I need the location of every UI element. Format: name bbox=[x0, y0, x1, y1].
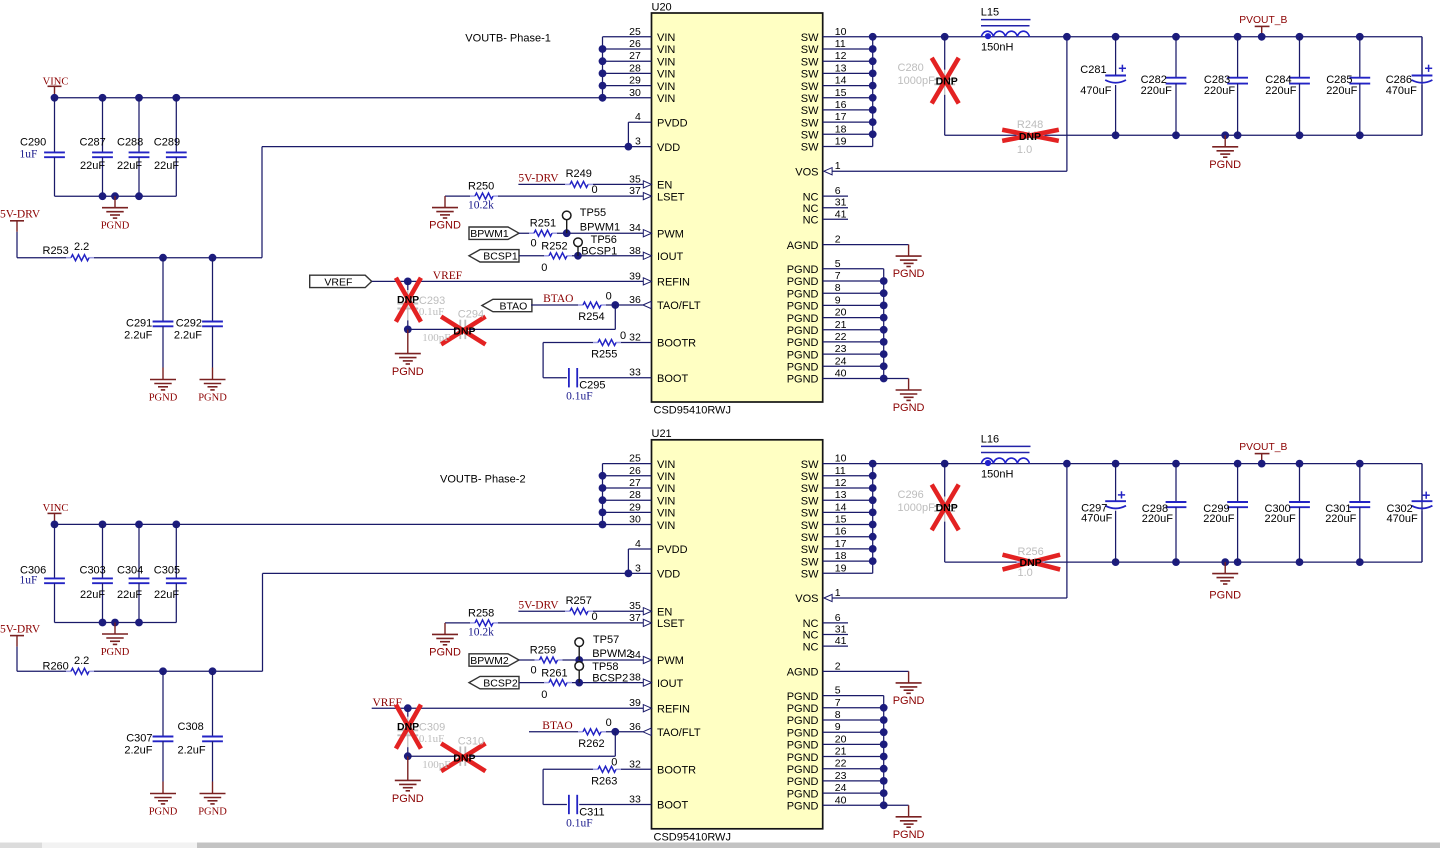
svg-text:PGND: PGND bbox=[787, 374, 819, 386]
svg-text:IOUT: IOUT bbox=[657, 251, 684, 263]
svg-text:BCSP1: BCSP1 bbox=[483, 251, 518, 263]
svg-text:7: 7 bbox=[835, 697, 841, 709]
svg-text:29: 29 bbox=[629, 75, 641, 87]
svg-text:0: 0 bbox=[606, 290, 612, 302]
svg-text:DNP: DNP bbox=[453, 326, 475, 338]
svg-text:VIN: VIN bbox=[657, 93, 675, 105]
svg-text:TP58: TP58 bbox=[592, 661, 618, 673]
svg-text:0: 0 bbox=[592, 611, 598, 623]
svg-text:PGND: PGND bbox=[392, 366, 424, 378]
svg-text:470uF: 470uF bbox=[1387, 513, 1418, 525]
svg-text:VIN: VIN bbox=[657, 81, 675, 93]
svg-text:22uF: 22uF bbox=[154, 160, 179, 172]
svg-text:C283: C283 bbox=[1204, 74, 1230, 86]
svg-text:22: 22 bbox=[835, 331, 847, 343]
svg-text:NC: NC bbox=[803, 191, 819, 203]
svg-text:4: 4 bbox=[635, 538, 641, 550]
svg-text:2.2: 2.2 bbox=[74, 655, 89, 667]
svg-text:35: 35 bbox=[629, 600, 641, 612]
svg-text:SW: SW bbox=[801, 32, 819, 44]
svg-text:29: 29 bbox=[629, 501, 641, 513]
svg-text:31: 31 bbox=[835, 624, 847, 636]
svg-text:DNP: DNP bbox=[936, 502, 958, 514]
svg-text:C303: C303 bbox=[80, 564, 106, 576]
svg-text:22uF: 22uF bbox=[80, 589, 105, 601]
svg-text:TP55: TP55 bbox=[580, 207, 606, 219]
svg-text:28: 28 bbox=[629, 489, 641, 501]
svg-text:PGND: PGND bbox=[787, 337, 819, 349]
svg-text:22uF: 22uF bbox=[154, 589, 179, 601]
svg-text:PVDD: PVDD bbox=[657, 117, 688, 129]
svg-text:C293: C293 bbox=[419, 295, 445, 307]
svg-text:28: 28 bbox=[629, 62, 641, 74]
svg-text:30: 30 bbox=[629, 87, 641, 99]
svg-text:PVDD: PVDD bbox=[657, 544, 688, 556]
svg-text:22uF: 22uF bbox=[117, 589, 142, 601]
svg-text:R263: R263 bbox=[591, 775, 617, 787]
svg-text:0: 0 bbox=[531, 238, 537, 250]
svg-text:PGND: PGND bbox=[429, 220, 461, 232]
svg-text:SW: SW bbox=[801, 105, 819, 117]
svg-text:C286: C286 bbox=[1386, 74, 1412, 86]
svg-text:C292: C292 bbox=[176, 318, 202, 330]
svg-text:PGND: PGND bbox=[787, 301, 819, 313]
svg-text:10.2k: 10.2k bbox=[468, 626, 494, 638]
svg-text:6: 6 bbox=[835, 185, 841, 197]
svg-text:38: 38 bbox=[629, 245, 641, 257]
svg-text:C280: C280 bbox=[898, 62, 924, 74]
svg-text:AGND: AGND bbox=[787, 667, 819, 679]
svg-text:SW: SW bbox=[801, 544, 819, 556]
svg-text:R253: R253 bbox=[43, 245, 69, 257]
svg-text:SW: SW bbox=[801, 130, 819, 142]
svg-text:1.0: 1.0 bbox=[1018, 567, 1033, 579]
svg-text:C281: C281 bbox=[1080, 64, 1106, 76]
svg-text:0: 0 bbox=[620, 330, 626, 342]
svg-text:BTAO: BTAO bbox=[499, 300, 527, 312]
svg-text:18: 18 bbox=[835, 123, 847, 135]
svg-text:BOOT: BOOT bbox=[657, 800, 688, 812]
svg-text:220uF: 220uF bbox=[1265, 513, 1296, 525]
svg-text:BOOT: BOOT bbox=[657, 373, 688, 385]
svg-text:C308: C308 bbox=[178, 721, 204, 733]
svg-text:C291: C291 bbox=[126, 318, 152, 330]
svg-text:5V-DRV: 5V-DRV bbox=[0, 209, 41, 221]
svg-text:PGND: PGND bbox=[787, 740, 819, 752]
svg-text:1: 1 bbox=[835, 587, 841, 599]
svg-text:0: 0 bbox=[541, 262, 547, 274]
svg-text:PGND: PGND bbox=[787, 715, 819, 727]
svg-text:4: 4 bbox=[635, 111, 641, 123]
svg-text:DNP: DNP bbox=[936, 75, 958, 87]
svg-text:C296: C296 bbox=[898, 489, 924, 501]
svg-text:R255: R255 bbox=[591, 349, 617, 361]
svg-text:C294: C294 bbox=[458, 309, 484, 321]
svg-text:PGND: PGND bbox=[787, 691, 819, 703]
svg-text:NC: NC bbox=[803, 215, 819, 227]
svg-text:7: 7 bbox=[835, 270, 841, 282]
svg-text:R256: R256 bbox=[1018, 546, 1044, 558]
svg-text:2.2uF: 2.2uF bbox=[174, 330, 202, 342]
svg-text:220uF: 220uF bbox=[1203, 513, 1234, 525]
svg-text:SW: SW bbox=[801, 520, 819, 532]
svg-text:39: 39 bbox=[629, 270, 641, 282]
svg-text:PGND: PGND bbox=[787, 788, 819, 800]
svg-text:470uF: 470uF bbox=[1080, 85, 1111, 97]
svg-text:BPWM2: BPWM2 bbox=[470, 655, 509, 667]
svg-text:26: 26 bbox=[629, 465, 641, 477]
svg-text:10: 10 bbox=[835, 26, 847, 38]
svg-text:C309: C309 bbox=[419, 722, 445, 734]
svg-text:SW: SW bbox=[801, 495, 819, 507]
svg-text:PVOUT_B: PVOUT_B bbox=[1239, 442, 1287, 453]
svg-text:NC: NC bbox=[803, 203, 819, 215]
svg-text:C305: C305 bbox=[154, 564, 180, 576]
svg-text:NC: NC bbox=[803, 630, 819, 642]
svg-text:100pF: 100pF bbox=[422, 332, 450, 344]
svg-text:1uF: 1uF bbox=[20, 574, 38, 586]
svg-text:C285: C285 bbox=[1326, 74, 1352, 86]
svg-text:DNP: DNP bbox=[397, 294, 419, 306]
svg-text:PGND: PGND bbox=[893, 695, 925, 707]
svg-text:PGND: PGND bbox=[787, 801, 819, 813]
svg-text:9: 9 bbox=[835, 721, 841, 733]
svg-text:3: 3 bbox=[635, 562, 641, 574]
svg-text:BTAO: BTAO bbox=[542, 720, 572, 732]
svg-text:150nH: 150nH bbox=[981, 42, 1013, 54]
svg-text:C289: C289 bbox=[154, 137, 180, 149]
svg-text:PGND: PGND bbox=[429, 646, 461, 658]
svg-text:5V-DRV: 5V-DRV bbox=[0, 624, 41, 636]
svg-text:1: 1 bbox=[835, 160, 841, 172]
svg-text:PGND: PGND bbox=[787, 288, 819, 300]
svg-text:PGND: PGND bbox=[149, 807, 178, 818]
svg-text:32: 32 bbox=[629, 332, 641, 344]
svg-text:R259: R259 bbox=[530, 644, 556, 656]
svg-text:VIN: VIN bbox=[657, 56, 675, 68]
svg-text:11: 11 bbox=[835, 465, 846, 477]
svg-text:PGND: PGND bbox=[1209, 159, 1241, 171]
svg-text:0.1uF: 0.1uF bbox=[419, 306, 444, 318]
svg-text:VREF: VREF bbox=[324, 276, 352, 288]
svg-text:31: 31 bbox=[835, 197, 847, 209]
svg-text:C288: C288 bbox=[117, 137, 143, 149]
svg-text:SW: SW bbox=[801, 117, 819, 129]
svg-text:PVOUT_B: PVOUT_B bbox=[1239, 15, 1287, 26]
svg-text:27: 27 bbox=[629, 50, 641, 62]
svg-text:C287: C287 bbox=[80, 137, 106, 149]
svg-text:VIN: VIN bbox=[657, 459, 675, 471]
svg-text:PGND: PGND bbox=[787, 362, 819, 374]
svg-text:IOUT: IOUT bbox=[657, 678, 684, 690]
svg-text:1000pF: 1000pF bbox=[898, 75, 936, 87]
svg-text:PGND: PGND bbox=[787, 349, 819, 361]
svg-text:BCSP1: BCSP1 bbox=[581, 246, 617, 258]
svg-text:VOS: VOS bbox=[795, 593, 818, 605]
svg-text:R248: R248 bbox=[1017, 119, 1043, 131]
svg-text:CSD95410RWJ: CSD95410RWJ bbox=[654, 831, 731, 843]
svg-text:8: 8 bbox=[835, 709, 841, 721]
svg-text:PGND: PGND bbox=[893, 829, 925, 841]
svg-text:SW: SW bbox=[801, 56, 819, 68]
svg-text:34: 34 bbox=[629, 222, 641, 234]
svg-text:1000pF: 1000pF bbox=[898, 502, 936, 514]
svg-text:SW: SW bbox=[801, 459, 819, 471]
svg-text:1.0: 1.0 bbox=[1017, 144, 1032, 156]
svg-text:0: 0 bbox=[592, 184, 598, 196]
svg-text:5: 5 bbox=[835, 258, 841, 270]
svg-text:2: 2 bbox=[835, 660, 841, 672]
svg-text:VREF: VREF bbox=[433, 270, 462, 282]
svg-text:PGND: PGND bbox=[1209, 590, 1241, 602]
svg-text:BCSP2: BCSP2 bbox=[483, 678, 518, 690]
svg-text:VIN: VIN bbox=[657, 69, 675, 81]
svg-text:C304: C304 bbox=[117, 564, 143, 576]
svg-text:VIN: VIN bbox=[657, 32, 675, 44]
svg-text:9: 9 bbox=[835, 294, 841, 306]
svg-text:41: 41 bbox=[835, 208, 847, 220]
svg-text:2.2uF: 2.2uF bbox=[124, 330, 152, 342]
svg-text:TP56: TP56 bbox=[591, 234, 617, 246]
svg-text:PGND: PGND bbox=[787, 752, 819, 764]
svg-text:PGND: PGND bbox=[787, 264, 819, 276]
svg-text:SW: SW bbox=[801, 44, 819, 56]
svg-text:22: 22 bbox=[835, 758, 847, 770]
svg-text:VOS: VOS bbox=[795, 166, 818, 178]
svg-text:EN: EN bbox=[657, 606, 672, 618]
svg-text:PWM: PWM bbox=[657, 228, 684, 240]
svg-text:R251: R251 bbox=[530, 218, 556, 230]
svg-text:VIN: VIN bbox=[657, 471, 675, 483]
svg-text:PGND: PGND bbox=[787, 703, 819, 715]
svg-text:19: 19 bbox=[835, 136, 847, 148]
svg-text:LSET: LSET bbox=[657, 191, 685, 203]
svg-text:12: 12 bbox=[835, 50, 847, 62]
svg-text:40: 40 bbox=[835, 794, 847, 806]
svg-text:0.1uF: 0.1uF bbox=[419, 733, 444, 745]
svg-text:SW: SW bbox=[801, 508, 819, 520]
svg-text:5: 5 bbox=[835, 685, 841, 697]
svg-text:220uF: 220uF bbox=[1265, 85, 1296, 97]
svg-text:12: 12 bbox=[835, 477, 847, 489]
svg-text:16: 16 bbox=[835, 99, 847, 111]
svg-text:22uF: 22uF bbox=[80, 160, 105, 172]
svg-text:U20: U20 bbox=[652, 1, 672, 13]
svg-text:38: 38 bbox=[629, 672, 641, 684]
svg-text:R261: R261 bbox=[541, 667, 567, 679]
svg-text:11: 11 bbox=[835, 38, 846, 50]
svg-text:L15: L15 bbox=[981, 7, 999, 19]
svg-text:20: 20 bbox=[835, 307, 847, 319]
svg-text:VOUTB- Phase-2: VOUTB- Phase-2 bbox=[440, 474, 526, 486]
svg-text:17: 17 bbox=[835, 538, 847, 550]
svg-text:36: 36 bbox=[629, 721, 641, 733]
svg-text:LSET: LSET bbox=[657, 618, 685, 630]
svg-text:VIN: VIN bbox=[657, 508, 675, 520]
svg-text:33: 33 bbox=[629, 367, 641, 379]
svg-text:1uF: 1uF bbox=[20, 149, 38, 161]
svg-text:C282: C282 bbox=[1141, 74, 1167, 86]
svg-text:VDD: VDD bbox=[657, 569, 680, 581]
svg-text:BCSP2: BCSP2 bbox=[592, 672, 628, 684]
svg-text:10: 10 bbox=[835, 453, 847, 465]
svg-text:AGND: AGND bbox=[787, 240, 819, 252]
svg-text:TP57: TP57 bbox=[593, 634, 619, 646]
svg-text:BTAO: BTAO bbox=[543, 293, 573, 305]
svg-text:2.2uF: 2.2uF bbox=[178, 745, 206, 757]
svg-text:PWM: PWM bbox=[657, 655, 684, 667]
svg-text:100pF: 100pF bbox=[422, 759, 450, 771]
svg-text:PGND: PGND bbox=[101, 647, 130, 658]
svg-text:SW: SW bbox=[801, 81, 819, 93]
svg-text:10.2k: 10.2k bbox=[468, 200, 494, 212]
svg-text:15: 15 bbox=[835, 514, 847, 526]
svg-text:SW: SW bbox=[801, 69, 819, 81]
svg-text:23: 23 bbox=[835, 343, 847, 355]
svg-text:470uF: 470uF bbox=[1386, 85, 1417, 97]
svg-text:SW: SW bbox=[801, 483, 819, 495]
svg-text:0: 0 bbox=[541, 689, 547, 701]
svg-text:37: 37 bbox=[629, 185, 641, 197]
svg-text:220uF: 220uF bbox=[1326, 85, 1357, 97]
svg-text:SW: SW bbox=[801, 142, 819, 154]
svg-text:PGND: PGND bbox=[198, 393, 227, 404]
svg-text:25: 25 bbox=[629, 26, 641, 38]
svg-text:C284: C284 bbox=[1265, 74, 1291, 86]
svg-text:PGND: PGND bbox=[787, 764, 819, 776]
svg-text:150nH: 150nH bbox=[981, 468, 1013, 480]
svg-text:BOOTR: BOOTR bbox=[657, 765, 696, 777]
svg-text:R250: R250 bbox=[468, 181, 494, 193]
svg-text:5V-DRV: 5V-DRV bbox=[518, 173, 559, 185]
svg-text:30: 30 bbox=[629, 514, 641, 526]
svg-text:3: 3 bbox=[635, 136, 641, 148]
svg-text:37: 37 bbox=[629, 612, 641, 624]
svg-text:15: 15 bbox=[835, 87, 847, 99]
svg-text:0.1uF: 0.1uF bbox=[566, 818, 593, 830]
svg-text:PGND: PGND bbox=[787, 727, 819, 739]
svg-text:TAO/FLT: TAO/FLT bbox=[657, 300, 701, 312]
svg-text:TAO/FLT: TAO/FLT bbox=[657, 727, 701, 739]
svg-text:33: 33 bbox=[629, 794, 641, 806]
svg-text:R249: R249 bbox=[566, 168, 592, 180]
svg-text:2: 2 bbox=[835, 234, 841, 246]
svg-text:220uF: 220uF bbox=[1204, 85, 1235, 97]
svg-text:SW: SW bbox=[801, 93, 819, 105]
svg-text:VIN: VIN bbox=[657, 495, 675, 507]
svg-text:R254: R254 bbox=[578, 311, 604, 323]
svg-text:VIN: VIN bbox=[657, 44, 675, 56]
svg-text:19: 19 bbox=[835, 562, 847, 574]
svg-text:8: 8 bbox=[835, 282, 841, 294]
svg-text:6: 6 bbox=[835, 612, 841, 624]
svg-text:220uF: 220uF bbox=[1141, 85, 1172, 97]
svg-text:PGND: PGND bbox=[787, 776, 819, 788]
svg-text:24: 24 bbox=[835, 355, 847, 367]
svg-text:VDD: VDD bbox=[657, 142, 680, 154]
svg-text:0: 0 bbox=[606, 717, 612, 729]
svg-text:PGND: PGND bbox=[893, 268, 925, 280]
svg-text:PGND: PGND bbox=[893, 402, 925, 414]
svg-text:17: 17 bbox=[835, 111, 847, 123]
svg-text:35: 35 bbox=[629, 173, 641, 185]
svg-text:2.2uF: 2.2uF bbox=[124, 745, 152, 757]
svg-text:26: 26 bbox=[629, 38, 641, 50]
svg-text:40: 40 bbox=[835, 368, 847, 380]
svg-text:PGND: PGND bbox=[101, 221, 130, 232]
svg-text:41: 41 bbox=[835, 635, 847, 647]
svg-text:DNP: DNP bbox=[453, 752, 475, 764]
svg-text:PGND: PGND bbox=[787, 313, 819, 325]
svg-text:SW: SW bbox=[801, 569, 819, 581]
svg-text:PGND: PGND bbox=[787, 325, 819, 337]
svg-text:13: 13 bbox=[835, 62, 847, 74]
svg-text:23: 23 bbox=[835, 770, 847, 782]
svg-text:21: 21 bbox=[835, 319, 847, 331]
svg-text:22uF: 22uF bbox=[117, 160, 142, 172]
svg-text:R258: R258 bbox=[468, 608, 494, 620]
svg-text:0: 0 bbox=[611, 757, 617, 769]
svg-text:18: 18 bbox=[835, 550, 847, 562]
svg-text:470uF: 470uF bbox=[1081, 513, 1112, 525]
svg-text:0.1uF: 0.1uF bbox=[566, 391, 593, 403]
svg-text:BPWM1: BPWM1 bbox=[470, 228, 509, 240]
svg-text:C290: C290 bbox=[20, 137, 46, 149]
svg-text:DNP: DNP bbox=[1019, 131, 1041, 143]
svg-text:VIN: VIN bbox=[657, 520, 675, 532]
svg-text:27: 27 bbox=[629, 477, 641, 489]
svg-text:U21: U21 bbox=[652, 428, 672, 440]
svg-text:BOOTR: BOOTR bbox=[657, 338, 696, 350]
svg-text:PGND: PGND bbox=[392, 793, 424, 805]
svg-text:PGND: PGND bbox=[149, 393, 178, 404]
svg-text:VOUTB- Phase-1: VOUTB- Phase-1 bbox=[465, 33, 551, 45]
svg-text:220uF: 220uF bbox=[1142, 513, 1173, 525]
svg-text:16: 16 bbox=[835, 526, 847, 538]
svg-text:13: 13 bbox=[835, 489, 847, 501]
svg-text:5V-DRV: 5V-DRV bbox=[518, 599, 559, 611]
svg-text:C307: C307 bbox=[126, 733, 152, 745]
svg-text:32: 32 bbox=[629, 758, 641, 770]
svg-text:36: 36 bbox=[629, 294, 641, 306]
svg-text:EN: EN bbox=[657, 180, 672, 192]
svg-text:REFIN: REFIN bbox=[657, 277, 690, 289]
svg-text:20: 20 bbox=[835, 733, 847, 745]
svg-text:21: 21 bbox=[835, 746, 847, 758]
svg-text:CSD95410RWJ: CSD95410RWJ bbox=[654, 405, 731, 417]
svg-text:14: 14 bbox=[835, 501, 847, 513]
svg-text:SW: SW bbox=[801, 556, 819, 568]
svg-text:220uF: 220uF bbox=[1325, 513, 1356, 525]
svg-text:R252: R252 bbox=[541, 241, 567, 253]
svg-text:L16: L16 bbox=[981, 433, 999, 445]
svg-text:SW: SW bbox=[801, 532, 819, 544]
svg-text:24: 24 bbox=[835, 782, 847, 794]
svg-text:DNP: DNP bbox=[397, 721, 419, 733]
svg-text:PGND: PGND bbox=[198, 807, 227, 818]
svg-text:25: 25 bbox=[629, 453, 641, 465]
svg-text:SW: SW bbox=[801, 471, 819, 483]
svg-text:NC: NC bbox=[803, 618, 819, 630]
svg-text:PGND: PGND bbox=[787, 276, 819, 288]
svg-text:R257: R257 bbox=[566, 595, 592, 607]
svg-text:R260: R260 bbox=[43, 661, 69, 673]
svg-text:BPWM2: BPWM2 bbox=[592, 648, 632, 660]
svg-text:VINC: VINC bbox=[43, 503, 69, 514]
svg-text:0: 0 bbox=[531, 664, 537, 676]
svg-text:39: 39 bbox=[629, 697, 641, 709]
svg-text:C310: C310 bbox=[458, 735, 484, 747]
